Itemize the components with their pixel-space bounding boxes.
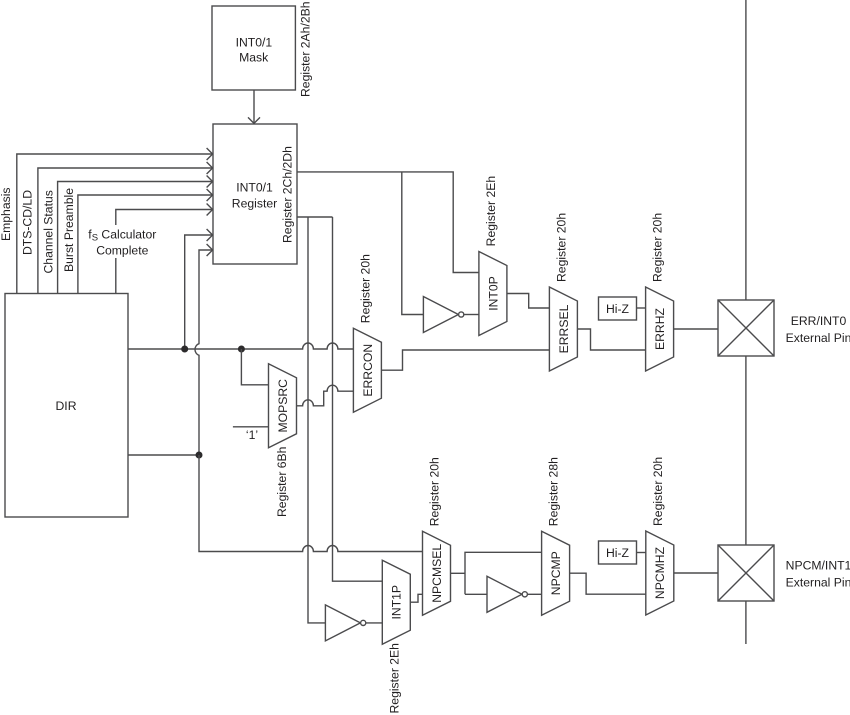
svg-text:Register 20h: Register 20h [554,213,568,282]
wire DTS-CD/LD input [38,168,212,294]
svg-text:Register 20h: Register 20h [428,457,442,526]
mux ERRSEL [549,287,577,371]
inverter U3 [487,576,522,612]
svg-text:Mask: Mask [239,50,269,64]
wire ERRCON output to ERRSEL bottom input [381,350,549,370]
svg-text:‘1’: ‘1’ [246,428,258,442]
wire INT0P output to ERRSEL top input [507,294,550,309]
svg-text:MOPSRC: MOPSRC [276,379,290,433]
svg-text:Hi-Z: Hi-Z [606,546,630,560]
svg-text:ERR/INT0: ERR/INT0 [791,314,847,328]
svg-text:Register 2Eh: Register 2Eh [484,176,498,246]
wire register output 1 to INT0P top input [297,172,479,273]
svg-text:Complete: Complete [96,243,148,257]
svg-text:Burst Preamble: Burst Preamble [62,188,76,272]
block INT0/1 Register box [213,124,297,264]
svg-text:Register 20h: Register 20h [651,213,665,282]
svg-text:fS Calculator: fS Calculator [88,227,156,243]
white gap for fS text over wire [84,225,161,258]
svg-text:External Pin: External Pin [786,576,850,590]
wire Hi-Z to ERRHZ top input [637,307,646,309]
wire DIR lower output [128,454,199,456]
junction dot B [238,346,245,353]
wire Emphasis input [17,154,212,294]
chip boundary line (bottom segment) [745,601,747,644]
pin box NPCM/INT1 [718,545,774,601]
svg-text:Register 20h: Register 20h [651,457,665,526]
mux NPCMHZ [646,531,674,615]
svg-text:DTS-CD/LD: DTS-CD/LD [21,190,35,255]
svg-text:ERRCON: ERRCON [361,344,375,397]
wire NPCMSEL output branch node [451,572,466,574]
wire node C down and to NPCMSEL top input (hops at x308,x332) [199,455,423,552]
wire branch to inverter U1 input [402,172,424,315]
svg-text:NPCM/INT1: NPCM/INT1 [786,559,850,573]
wire register output 2 [297,216,333,218]
svg-text:ERRHZ: ERRHZ [653,307,667,350]
svg-text:INT0P: INT0P [486,276,500,311]
block DIR box [5,294,128,518]
wire Burst Preamble input [78,195,212,294]
svg-text:Emphasis: Emphasis [0,187,13,241]
chip boundary line (middle segment) [745,356,747,545]
inverter U2 [325,605,360,641]
mux INT1P [382,560,410,644]
wire ERRHZ output to ERR pin [674,328,718,330]
wire MOPSRC output to ERRCON bottom input (hops at x308,x332) [297,385,354,406]
svg-text:Hi-Z: Hi-Z [606,302,630,316]
wire DIR upper output to ERRCON top input (hops at x199,x308,x332) [128,343,353,349]
pin box ERR/INT0 [718,300,774,356]
svg-text:Channel Status: Channel Status [42,190,56,273]
svg-text:NPCMP: NPCMP [549,551,563,595]
wire constant 1 to MOPSRC bottom input [233,426,269,428]
svg-text:INT0/1: INT0/1 [236,35,273,49]
wire vertical feed to inverter U2 [308,217,325,623]
svg-text:NPCMSEL: NPCMSEL [430,544,444,603]
svg-text:DIR: DIR [56,399,77,413]
wire inverter U2 output to INT1P bottom input [366,622,383,624]
svg-text:NPCMHZ: NPCMHZ [653,546,667,599]
wire ERRSEL output to ERRHZ bottom input [577,329,645,350]
wire NPCMP output to NPCMHZ bottom input [570,573,646,594]
wire INT1P output to NPCMSEL bottom input [410,594,422,602]
wire NPCMHZ output to NPCM pin [674,572,718,574]
svg-text:External Pin: External Pin [786,331,850,345]
svg-text:Register 28h: Register 28h [547,457,561,526]
svg-text:INT0/1: INT0/1 [236,181,273,195]
junction dot C [196,452,203,459]
wire inverter U1 output to INT0P bottom input [464,314,479,316]
block Hi-Z box 1 [599,297,637,320]
wire feedback 1 to register [185,235,212,349]
mux ERRHZ [646,287,674,371]
svg-text:Register 2Eh: Register 2Eh [387,643,401,713]
wire fS Calculator Complete input [116,210,212,294]
wire node B down to MOPSRC top input [241,349,268,385]
wire Channel Status input [58,182,212,294]
wire branch to inverter U3 input [465,593,487,595]
svg-text:Register 2Ah/2Bh: Register 2Ah/2Bh [299,1,313,97]
svg-text:ERRSEL: ERRSEL [557,304,571,353]
svg-text:Register 20h: Register 20h [358,254,372,323]
wire mask to register with arrowhead [253,90,255,123]
mux NPCMP [542,531,570,615]
mux MOPSRC [269,364,297,448]
svg-text:Register 6Bh: Register 6Bh [275,447,289,517]
wire Hi-Z to NPCMHZ top input [637,552,646,554]
svg-text:INT1P: INT1P [390,585,404,620]
wire vertical feed to INT1P top input [333,217,383,581]
wire branch to NPCMP top input [465,552,542,594]
block INT0/1 Mask box [212,6,295,90]
inverter U1 [423,297,458,333]
mux ERRCON [353,328,381,412]
wire feedback 2 to register [195,250,212,455]
chip boundary line (top segment) [745,0,747,300]
svg-text:Register 2Ch/2Dh: Register 2Ch/2Dh [281,146,295,243]
mux INT0P [479,252,507,336]
block Hi-Z box 2 [599,541,637,564]
wire inverter U3 output to NPCMP bottom input [527,593,541,595]
svg-text:Register: Register [232,197,277,211]
junction dot A [181,346,188,353]
mux NPCMSEL [423,531,451,615]
